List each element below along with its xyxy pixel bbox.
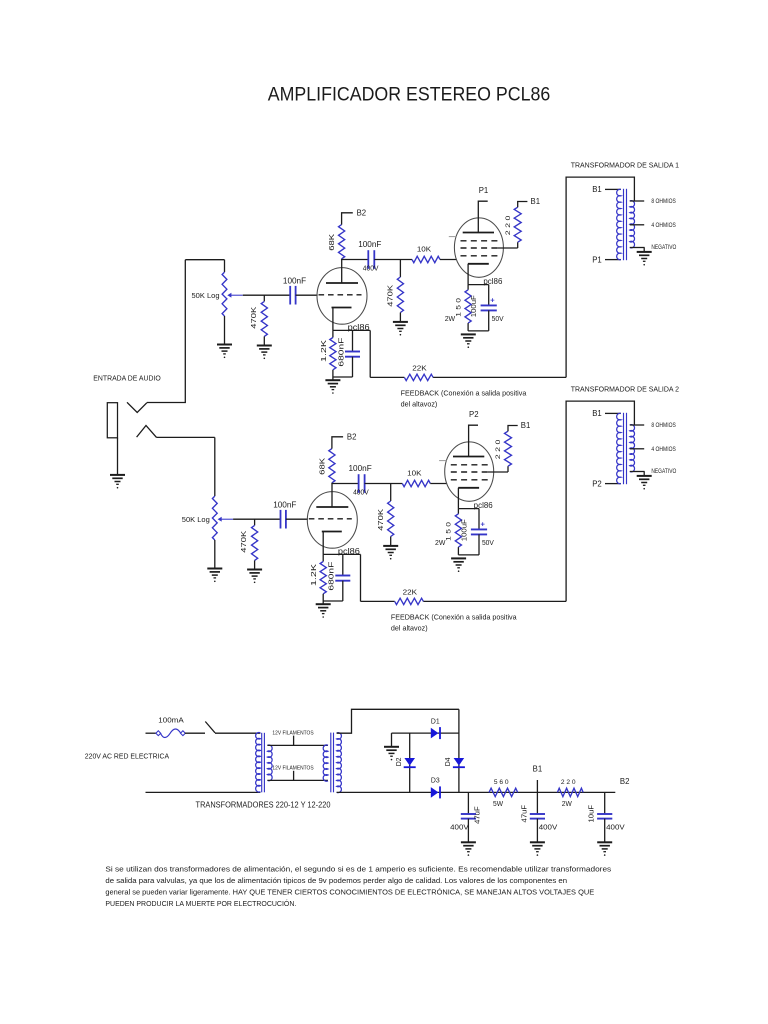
label B1 at 220 ch1 — [531, 197, 541, 206]
pentode cathode ch1 — [468, 264, 489, 285]
label 10K ch2 — [407, 469, 421, 478]
title text — [268, 84, 551, 106]
resistor 150 ch2 label — [446, 522, 453, 541]
label 100nF coupling ch2 — [348, 464, 371, 473]
label 2W ch1 — [445, 314, 455, 323]
label 5W — [493, 799, 503, 808]
triode cathode ch1 — [332, 308, 352, 331]
jack ring contact (ch2) — [137, 426, 157, 438]
svg-text:D3: D3 — [431, 776, 440, 785]
label B2 ch2 — [347, 432, 357, 441]
svg-text:NEGATIVO: NEGATIVO — [651, 468, 676, 475]
resistor 150 ch1 lead — [467, 285, 469, 290]
label 100nF input ch2 — [273, 500, 296, 509]
label FEEDBACK2 ch1 — [401, 400, 438, 409]
capacitor 100uF ch1 lead — [488, 285, 490, 306]
label 400V #3 — [606, 823, 625, 832]
label D4 — [445, 757, 452, 766]
label 8 OHMIOS T1 — [651, 198, 675, 205]
capacitor 100uF ch1 lead2 — [488, 310, 490, 331]
wire plate line ch1 — [342, 259, 369, 261]
wire 10K to pentode ch1 — [440, 259, 457, 261]
wire triode cathode node ch1 — [333, 329, 370, 331]
switch blade — [205, 722, 215, 733]
wire input down to pot ch2 — [214, 437, 216, 496]
svg-text:5 6 0: 5 6 0 — [494, 779, 509, 786]
ground negative T2 — [637, 472, 652, 490]
PSU transformer 1 primary — [256, 732, 261, 792]
label pcl86 triode ch2 — [338, 547, 360, 556]
pentode PCL86 ch1 envelope — [454, 218, 503, 277]
label 560 — [494, 779, 509, 786]
resistor 150 ch2 lead — [457, 509, 459, 514]
ground cathode RC ch1 — [461, 334, 476, 348]
wire 680nF bottom ch1 — [333, 376, 353, 378]
svg-text:68K: 68K — [319, 457, 326, 474]
svg-text:1 5 0: 1 5 0 — [455, 298, 462, 317]
pentode plate ch1 — [463, 232, 494, 234]
svg-text:P1: P1 — [479, 186, 489, 195]
resistor 1.2K ch2 label — [311, 564, 318, 586]
svg-text:100nF: 100nF — [358, 240, 381, 249]
resistor 150 ch2 lead2 — [457, 547, 459, 555]
resistor 22K feedback ch1 body — [404, 374, 433, 380]
capacitor 47uF #1 lead — [467, 792, 469, 814]
svg-text:12V FILAMENTOS: 12V FILAMENTOS — [272, 766, 313, 772]
pot ground ch2 — [207, 569, 222, 583]
svg-text:general se pueden variar liger: general se pueden variar ligeramente. HA… — [105, 887, 594, 896]
fuse 100mA — [156, 729, 185, 738]
svg-text:400V: 400V — [353, 487, 369, 496]
svg-text:P2: P2 — [469, 410, 479, 419]
jack ground — [110, 475, 125, 489]
label 22K ch2 — [403, 588, 417, 597]
resistor 470K grid ch2 lead — [254, 519, 256, 525]
wire AC bottom — [146, 791, 261, 793]
wire cathode RC bottom ch2 — [458, 554, 479, 556]
pot ground ch1 — [217, 345, 232, 359]
svg-text:FEEDBACK (Conexión a salida po: FEEDBACK (Conexión a salida positiva — [391, 613, 518, 622]
resistor 150 ch1 lead2 — [467, 323, 469, 331]
triode grid ch1 — [319, 294, 362, 296]
svg-text:100uF: 100uF — [461, 519, 468, 541]
wire feedback frame T2 — [566, 401, 634, 601]
svg-text:B2: B2 — [347, 432, 357, 441]
wire feedback frame T1 — [566, 177, 634, 377]
svg-text:47uF: 47uF — [475, 806, 482, 824]
label FEEDBACK ch2 — [391, 613, 518, 622]
wire wiper to cap ch2 — [233, 518, 280, 520]
PSU transformer 2 core — [331, 733, 334, 793]
capacitor 10uF lead — [604, 792, 606, 814]
resistor 470K grid ch2 lead2 — [254, 560, 256, 569]
svg-text:50V: 50V — [492, 314, 504, 323]
svg-text:220V AC RED ELECTRICA: 220V AC RED ELECTRICA — [85, 752, 169, 761]
svg-text:680nF: 680nF — [338, 338, 345, 367]
wire B1 lead T1 — [605, 188, 621, 190]
resistor 220 screen ch1 body — [514, 207, 521, 242]
label 8 OHMIOS T2 — [651, 422, 675, 429]
wire switch to T1 — [215, 732, 260, 734]
resistor 560 body — [489, 788, 518, 796]
transformer T1 primary winding — [617, 189, 621, 259]
paragraph line 1 — [105, 864, 611, 873]
wire 8 ohm tap T2 — [630, 424, 644, 426]
resistor 1.2K ch1 label — [321, 340, 328, 362]
label FEEDBACK2 ch2 — [391, 624, 428, 633]
svg-text:22K: 22K — [403, 588, 417, 597]
resistor 1.2K ch2 lead2 — [322, 594, 324, 604]
pentode cathode ch2 — [458, 488, 479, 509]
svg-text:D4: D4 — [445, 757, 452, 766]
svg-text:1.2K: 1.2K — [311, 564, 318, 586]
wire plate line ch2 — [332, 483, 359, 485]
resistor 470K pent ch1 body — [397, 277, 403, 313]
jack body — [107, 403, 117, 438]
svg-text:400V: 400V — [450, 823, 469, 832]
label 220 PSU — [561, 779, 576, 786]
svg-text:400V: 400V — [606, 823, 625, 832]
pot wiper arrow ch1 — [227, 293, 243, 298]
ground cap #3 — [597, 842, 612, 856]
wire P2 lead T2 — [605, 483, 621, 485]
ground 470K pent ch1 — [393, 322, 408, 336]
capacitor 100nF input ch1 — [290, 286, 295, 305]
wire 68K bottom ch1 — [341, 258, 343, 261]
label B1 at 220 ch2 — [521, 421, 531, 430]
svg-text:D2: D2 — [396, 757, 403, 766]
capacitor 10uF plates — [597, 814, 612, 819]
wire feedback to 22K ch1 — [370, 376, 404, 378]
wire cap to 10K ch2 — [365, 483, 403, 485]
resistor 220 screen ch2 label — [495, 439, 502, 459]
label FEEDBACK ch1 — [401, 389, 528, 398]
label P2 T2 — [592, 479, 602, 488]
label 100nF input ch1 — [283, 276, 306, 285]
resistor 470K pent ch2 label — [378, 508, 385, 530]
PSU transformer 1 core — [262, 733, 265, 793]
capacitor 47uF #2 plates — [530, 814, 545, 819]
resistor 150 ch2 body — [455, 514, 461, 547]
wire 68K top to B2 ch2 — [332, 437, 343, 449]
wire P1 lead T1 — [605, 259, 621, 261]
label P2 pentode ch2 — [469, 410, 479, 419]
ground negative T1 — [637, 248, 652, 266]
pot wiper arrow ch2 — [218, 517, 234, 522]
resistor 470K grid ch2 label — [241, 530, 248, 552]
label 50V ch1 — [492, 314, 504, 323]
transformer T1 core — [624, 189, 627, 260]
svg-text:400V: 400V — [363, 263, 379, 272]
label B2 PSU — [620, 777, 630, 786]
triode plate ch1 — [326, 260, 358, 284]
resistor 68K ch1 label — [329, 233, 336, 250]
pentode grids ch2 — [451, 465, 488, 480]
resistor 22K feedback ch2 body — [395, 598, 424, 604]
capacitor 680nF ch1 lead — [352, 330, 354, 351]
label P1 T1 — [592, 255, 602, 264]
wire D4 branch — [458, 709, 460, 792]
wire D2 branch — [409, 733, 411, 792]
resistor 68K ch2 label — [319, 457, 326, 474]
svg-text:100nF: 100nF — [273, 500, 296, 509]
ground bridge — [384, 747, 399, 761]
capacitor 47uF #1 plates — [461, 814, 476, 819]
svg-text:100mA: 100mA — [158, 716, 184, 725]
label B2 ch1 — [357, 208, 367, 217]
transformer T2 secondary winding — [630, 425, 635, 472]
svg-text:4 OHMIOS: 4 OHMIOS — [651, 222, 675, 229]
wire AC top left — [146, 732, 157, 734]
label 400V ch1 — [363, 263, 379, 272]
wire 12V bottom link — [267, 779, 328, 781]
label NEGATIVO T2 — [651, 468, 676, 475]
wire cathode RC bottom ch1 — [468, 330, 489, 332]
resistor 470K pent ch2 lead2 — [390, 537, 392, 546]
triode grid ch2 — [309, 518, 352, 520]
transformer T2 primary winding — [617, 413, 621, 483]
label 12V FILAMENTOS top — [272, 730, 313, 736]
svg-text:TRANSFORMADORES 220-12 Y 12-22: TRANSFORMADORES 220-12 Y 12-220 — [196, 800, 331, 809]
svg-text:470K: 470K — [251, 306, 258, 328]
wire input to pot R1 top — [185, 259, 224, 261]
svg-text:1.2K: 1.2K — [321, 340, 328, 362]
potentiometer 50K Log ch1 body — [222, 272, 227, 316]
resistor 150 ch1 label — [455, 298, 462, 317]
label TRANSFORMADOR DE SALIDA 1 — [571, 161, 679, 170]
svg-text:68K: 68K — [329, 233, 336, 250]
label 400V #2 — [539, 823, 558, 832]
resistor 470K pent ch1 label — [388, 284, 395, 306]
svg-text:50K Log: 50K Log — [182, 515, 210, 524]
resistor 1.2K ch1 lead2 — [332, 370, 334, 380]
ground 470K pent ch2 — [383, 546, 398, 560]
capacitor 680nF ch1 lead2 — [352, 357, 354, 377]
capacitor 680nF ch2 plates — [335, 576, 350, 581]
capacitor 100nF coupling ch1 — [368, 250, 374, 269]
svg-text:Si se utilizan dos transformad: Si se utilizan dos transformadores de al… — [105, 864, 611, 873]
label 400V ch2 — [353, 487, 369, 496]
label 220V AC RED ELECTRICA — [85, 752, 169, 761]
label D2 — [396, 757, 403, 766]
resistor 470K grid ch2 body — [252, 525, 258, 560]
pot bottom lead ch1 — [224, 316, 226, 345]
ground cathode RC ch2 — [451, 558, 466, 572]
triode PCL86 ch1 envelope — [317, 268, 367, 325]
wire feedback vertical ch2 — [360, 554, 362, 601]
ground cap #1 — [461, 842, 476, 856]
pot bottom lead ch2 — [214, 540, 216, 569]
label B1 T2 — [592, 409, 602, 418]
pentode grids ch1 — [461, 241, 498, 256]
resistor 220 screen ch2 lead — [507, 466, 509, 472]
label D3 — [431, 776, 440, 785]
resistor 68K ch1 body — [339, 225, 345, 259]
capacitor 47uF #1 lead2 — [467, 819, 469, 843]
wire g2 to 220 ch2 — [488, 471, 508, 473]
capacitor 10uF lead2 — [604, 819, 606, 843]
label pcl86 triode ch1 — [348, 323, 370, 332]
wire negative tap T1 — [630, 247, 645, 249]
resistor 470K pent ch1 lead2 — [399, 313, 401, 322]
resistor 470K grid ch1 lead — [263, 295, 265, 301]
capacitor 47uF #1 label — [475, 806, 482, 824]
wire g2 to 220 ch1 — [498, 247, 518, 249]
capacitor 10uF label — [589, 805, 596, 823]
PSU transformer 2 primary — [323, 745, 328, 781]
capacitor 47uF #2 lead — [536, 792, 538, 814]
svg-text:8 OHMIOS: 8 OHMIOS — [651, 198, 675, 205]
svg-text:1 5 0: 1 5 0 — [446, 522, 453, 541]
resistor 470K grid ch1 label — [251, 306, 258, 328]
svg-text:TRANSFORMADOR DE SALIDA 2: TRANSFORMADOR DE SALIDA 2 — [571, 385, 679, 394]
svg-text:P1: P1 — [592, 255, 602, 264]
svg-text:680nF: 680nF — [329, 562, 336, 591]
svg-text:del altavoz): del altavoz) — [401, 400, 438, 409]
capacitor 100uF ch2 plates — [471, 529, 487, 534]
svg-text:2W: 2W — [562, 799, 572, 808]
label 2W ch2 — [435, 538, 445, 547]
wire triode cathode node ch2 — [323, 553, 360, 555]
svg-text:10uF: 10uF — [589, 805, 596, 823]
label 4 OHMIOS T1 — [651, 222, 675, 229]
label 100nF coupling ch1 — [358, 240, 381, 249]
svg-text:P2: P2 — [592, 479, 602, 488]
capacitor 47uF #2 label — [521, 805, 528, 823]
resistor 10K ch2 body — [402, 480, 430, 486]
capacitor 100nF coupling ch2 — [359, 474, 365, 493]
svg-text:de salida para valvulas, ya qu: de salida para valvulas, ya que los de a… — [105, 876, 567, 885]
diode D4 — [453, 758, 465, 767]
wire 22K to transformer ch1 — [433, 376, 566, 378]
svg-text:B2: B2 — [357, 208, 367, 217]
wire negative tap T2 — [630, 471, 645, 473]
label 400V #1 — [450, 823, 469, 832]
svg-text:2 2 0: 2 2 0 — [495, 439, 502, 459]
wire wiper to cap ch1 — [243, 294, 290, 296]
wire 220 to B1 ch2 — [508, 426, 518, 432]
svg-text:AMPLIFICADOR ESTEREO PCL86: AMPLIFICADOR ESTEREO PCL86 — [268, 84, 551, 106]
label TRANSFORMADOR DE SALIDA 2 — [571, 385, 679, 394]
pentode plate lead P1 ch1 — [478, 201, 487, 232]
label NEGATIVO T1 — [651, 244, 676, 251]
capacitor 680nF ch2 label — [329, 562, 336, 591]
capacitor 47uF #2 lead2 — [536, 819, 538, 843]
transformer T2 core — [624, 413, 627, 484]
resistor 220 screen ch1 label — [505, 215, 512, 235]
resistor 1.2K ch2 body — [320, 562, 326, 594]
label D1 — [431, 716, 440, 725]
wire 4 ohm tap T2 — [630, 448, 644, 450]
ground triode cathode ch2 — [316, 604, 331, 618]
svg-text:470K: 470K — [241, 530, 248, 552]
svg-text:470K: 470K — [388, 284, 395, 306]
svg-text:8 OHMIOS: 8 OHMIOS — [651, 422, 675, 429]
label 12V FILAMENTOS bottom — [272, 766, 313, 772]
wire 22K to transformer ch2 — [423, 600, 566, 602]
PSU transformer 2 secondary — [337, 733, 342, 793]
svg-text:400V: 400V — [539, 823, 558, 832]
label 2W PSU — [562, 799, 572, 808]
svg-text:100nF: 100nF — [348, 464, 371, 473]
resistor 10K ch1 body — [412, 256, 440, 262]
pentode plate lead P2 ch2 — [469, 425, 478, 456]
jack tip contact (ch1) — [127, 402, 147, 412]
wire feedback to 22K ch2 — [361, 600, 395, 602]
resistor 1.2K ch1 lead — [332, 330, 334, 337]
svg-text:50K Log: 50K Log — [192, 291, 220, 300]
diode D3 — [431, 786, 440, 798]
ground triode cathode ch1 — [325, 380, 340, 394]
svg-text:del altavoz): del altavoz) — [391, 624, 428, 633]
wire pot top lead ch1 — [224, 260, 226, 272]
label pcl86 pentode ch2 — [474, 501, 493, 510]
svg-text:B1: B1 — [592, 185, 602, 194]
wire 4 ohm tap T1 — [630, 224, 644, 226]
wire cap to triode ch1 — [296, 294, 318, 296]
svg-text:FEEDBACK (Conexión a salida po: FEEDBACK (Conexión a salida positiva — [401, 389, 528, 398]
capacitor 100uF ch2 label — [461, 519, 468, 541]
pentode plate ch2 — [453, 456, 484, 458]
svg-text:12V FILAMENTOS: 12V FILAMENTOS — [272, 730, 313, 736]
svg-text:PUEDEN PRODUCIR LA MUERTE POR: PUEDEN PRODUCIR LA MUERTE POR ELECTROCUC… — [105, 899, 296, 908]
svg-text:2W: 2W — [445, 314, 455, 323]
wire feedback vertical ch1 — [369, 330, 371, 377]
svg-text:47uF: 47uF — [521, 805, 528, 823]
svg-text:B1: B1 — [531, 197, 541, 206]
node B1 stub — [536, 780, 538, 792]
wire cap to triode ch2 — [286, 518, 308, 520]
svg-text:2 2 0: 2 2 0 — [505, 215, 512, 235]
pentode grid stub ch1 — [449, 236, 456, 238]
label 100mA — [158, 716, 184, 725]
ground 470K grid ch2 — [247, 570, 262, 584]
label P1 pentode ch1 — [479, 186, 489, 195]
svg-text:22K: 22K — [412, 364, 426, 373]
triode plate ch2 — [316, 484, 348, 508]
svg-text:10K: 10K — [407, 469, 421, 478]
resistor 470K pent ch1 lead — [399, 260, 401, 278]
wire 680nF bottom ch2 — [323, 600, 343, 602]
resistor 1.2K ch2 lead — [322, 554, 324, 561]
potentiometer 50K Log ch2 body — [212, 496, 217, 540]
svg-text:NEGATIVO: NEGATIVO — [651, 244, 676, 251]
pentode PCL86 ch2 envelope — [445, 442, 494, 501]
paragraph line 3 — [105, 887, 594, 896]
resistor 220 PSU body — [557, 788, 583, 796]
label pcl86 pentode ch1 — [483, 277, 502, 286]
capacitor 680nF ch2 lead2 — [342, 581, 344, 601]
label 4 OHMIOS T2 — [651, 446, 675, 453]
paragraph line 4 — [105, 899, 296, 908]
capacitor 100uF ch2 plus — [481, 519, 486, 528]
wire 220 to B1 ch1 — [518, 202, 528, 208]
svg-text:5W: 5W — [493, 799, 503, 808]
svg-text:2W: 2W — [435, 538, 445, 547]
audio input label — [93, 374, 161, 383]
resistor 470K pent ch2 lead — [390, 484, 392, 502]
svg-text:B1: B1 — [533, 765, 543, 774]
capacitor 100uF ch2 lead2 — [478, 534, 480, 555]
wire cap to 10K ch1 — [374, 259, 412, 261]
capacitor 680nF ch1 plates — [345, 352, 360, 357]
resistor 1.2K ch1 body — [330, 338, 336, 370]
svg-text:TRANSFORMADOR DE SALIDA 1: TRANSFORMADOR DE SALIDA 1 — [571, 161, 679, 170]
label TRANSFORMADORES 220-12 Y 12-220 — [196, 800, 331, 809]
capacitor 100nF input ch2 — [281, 510, 286, 529]
wire 12V top link — [267, 744, 328, 746]
resistor 470K grid ch1 lead2 — [263, 336, 265, 345]
